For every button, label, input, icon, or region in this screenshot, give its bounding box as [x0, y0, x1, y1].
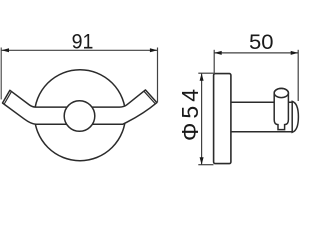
svg-text:50: 50 — [249, 29, 274, 54]
svg-text:91: 91 — [72, 30, 94, 54]
svg-text:Φ54: Φ54 — [177, 89, 203, 141]
